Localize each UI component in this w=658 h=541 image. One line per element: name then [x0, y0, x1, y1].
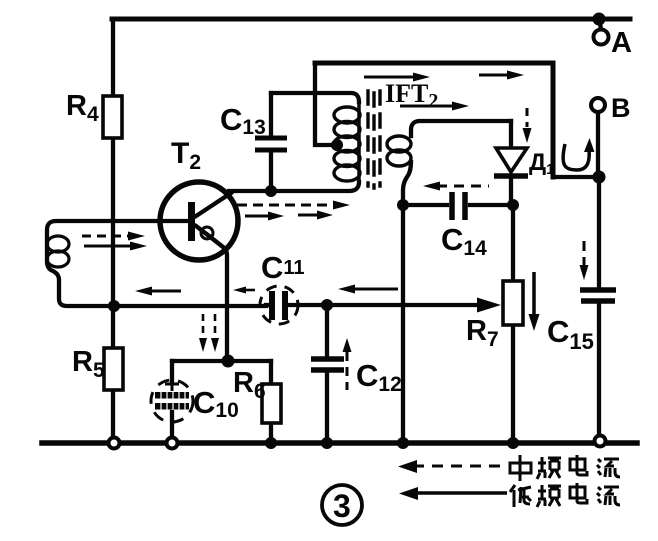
svg-text:C11: C11	[261, 250, 305, 285]
svg-text:R6: R6	[233, 367, 266, 403]
svg-text:3: 3	[333, 488, 351, 524]
svg-text:C14: C14	[441, 222, 487, 260]
svg-text:C15: C15	[547, 314, 594, 354]
svg-text:A: A	[611, 27, 632, 59]
svg-text:R7: R7	[466, 315, 499, 351]
svg-text:R4: R4	[66, 90, 99, 126]
svg-text:B: B	[611, 93, 631, 123]
svg-text:R5: R5	[72, 346, 105, 382]
svg-text:T2: T2	[171, 137, 201, 174]
svg-text:IFT2: IFT2	[385, 79, 438, 112]
svg-text:C12: C12	[356, 358, 402, 396]
svg-text:C13: C13	[220, 102, 266, 139]
svg-text:C10: C10	[193, 385, 239, 422]
